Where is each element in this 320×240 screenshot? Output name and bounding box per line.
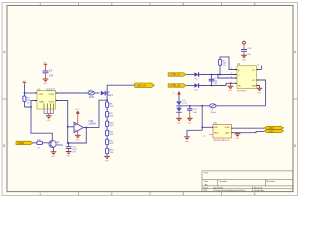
svg-text:Sheet of: Sheet of [254, 186, 263, 189]
svg-text:CTRL_B: CTRL_B [171, 85, 181, 88]
svg-text:10uH: 10uH [89, 96, 95, 99]
svg-text:10K: 10K [110, 125, 114, 127]
svg-text:1: 1 [39, 192, 41, 196]
svg-text:2: 2 [111, 2, 113, 6]
svg-text:C:\Users\Desktop\design.SchDoc: C:\Users\Desktop\design.SchDoc [213, 189, 246, 192]
svg-text:VIN: VIN [39, 94, 43, 96]
svg-text:+3V3: +3V3 [268, 128, 274, 130]
svg-text:104: 104 [49, 75, 54, 78]
svg-text:SPX1117M3-3.3: SPX1117M3-3.3 [214, 140, 231, 142]
svg-text:2021/5/30: 2021/5/30 [213, 187, 224, 189]
svg-text:10uH: 10uH [211, 112, 217, 114]
svg-text:ADC_IN: ADC_IN [137, 85, 146, 88]
svg-text:1%: 1% [27, 103, 30, 105]
svg-text:LE33CZ: LE33CZ [46, 88, 55, 91]
svg-text:SS14: SS14 [107, 94, 114, 97]
svg-text:4: 4 [254, 192, 256, 196]
svg-text:3: 3 [182, 192, 184, 196]
svg-text:GND: GND [214, 133, 219, 135]
svg-text:S8050: S8050 [56, 144, 64, 147]
svg-text:VOUT: VOUT [49, 94, 56, 96]
svg-text:Revision: Revision [267, 181, 276, 183]
svg-text:B: B [3, 144, 5, 148]
svg-text:1: 1 [39, 2, 41, 6]
svg-text:+3V3: +3V3 [268, 131, 274, 133]
svg-text:B: B [294, 144, 296, 148]
svg-text:10K: 10K [110, 143, 114, 145]
svg-text:PWM: PWM [18, 142, 24, 145]
svg-text:10K: 10K [110, 106, 114, 108]
svg-text:TLP280-1: TLP280-1 [237, 91, 247, 93]
svg-text:VOUT: VOUT [225, 127, 231, 129]
svg-text:3: 3 [182, 2, 184, 6]
svg-text:LM358: LM358 [89, 123, 97, 126]
svg-text:File:: File: [204, 190, 209, 192]
svg-text:10K: 10K [110, 115, 114, 117]
svg-text:ADJ: ADJ [226, 132, 230, 135]
svg-text:5.1V: 5.1V [183, 103, 188, 105]
svg-text:GND: GND [39, 102, 44, 104]
svg-text:VOUT: VOUT [49, 102, 56, 104]
svg-text:10K: 10K [110, 152, 114, 154]
svg-text:Date:: Date: [204, 186, 210, 189]
svg-text:CTRL_A: CTRL_A [171, 74, 181, 77]
svg-text:2: 2 [111, 192, 113, 196]
svg-text:VIN: VIN [214, 127, 218, 129]
svg-text:VO: VO [252, 80, 255, 82]
svg-text:10K: 10K [110, 134, 114, 136]
svg-text:Number: Number [220, 180, 228, 183]
svg-text:GND: GND [252, 85, 257, 87]
svg-text:1%: 1% [223, 65, 226, 67]
svg-text:4: 4 [254, 2, 256, 6]
svg-text:Drawn By:: Drawn By: [254, 189, 264, 192]
